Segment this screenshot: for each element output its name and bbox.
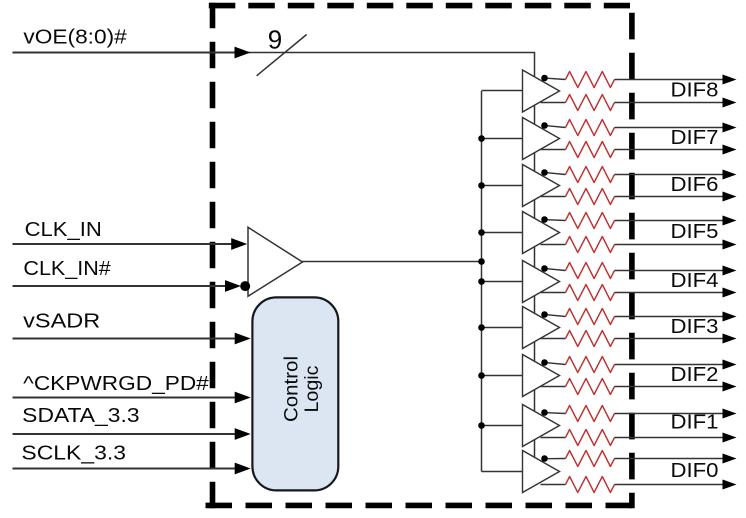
svg-text:Logic: Logic [301,365,323,412]
svg-text:DIF0: DIF0 [671,460,719,482]
svg-text:SCLK_3.3: SCLK_3.3 [21,443,126,465]
svg-text:DIF1: DIF1 [671,412,719,434]
svg-text:DIF2: DIF2 [671,364,719,386]
svg-text:DIF8: DIF8 [671,80,719,102]
svg-text:9: 9 [268,24,282,54]
svg-text:CLK_IN: CLK_IN [25,219,102,241]
svg-text:DIF5: DIF5 [671,221,719,243]
svg-text:DIF6: DIF6 [671,174,719,196]
svg-text:vSADR: vSADR [23,310,100,332]
svg-text:SDATA_3.3: SDATA_3.3 [22,405,139,427]
svg-text:DIF3: DIF3 [671,316,719,338]
svg-text:CLK_IN#: CLK_IN# [23,258,111,280]
svg-text:Control: Control [280,356,302,422]
svg-text:DIF4: DIF4 [671,270,719,292]
svg-text:vOE(8:0)#: vOE(8:0)# [23,27,127,49]
svg-text:^CKPWRGD_PD#: ^CKPWRGD_PD# [23,373,210,395]
svg-text:DIF7: DIF7 [671,127,719,149]
